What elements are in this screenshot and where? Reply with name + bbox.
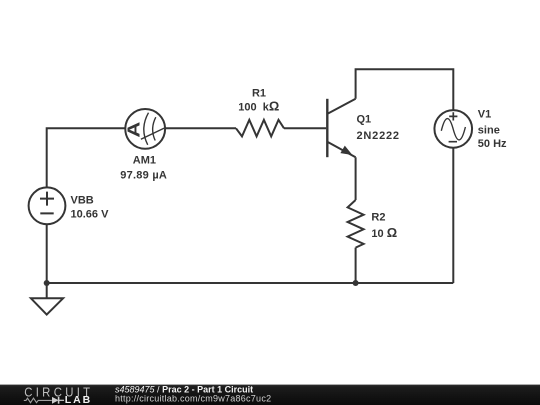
footer bar	[0, 385, 540, 405]
svg-text:VBB: VBB	[71, 195, 94, 207]
label R1 100 kOhm	[238, 87, 279, 113]
svg-text:A: A	[125, 122, 144, 138]
wire R2 bottom to ground rail	[355, 248, 357, 283]
svg-text:V1: V1	[478, 108, 491, 120]
ground	[31, 298, 63, 314]
svg-text:R2: R2	[371, 211, 385, 223]
svg-text:10.66 V: 10.66 V	[71, 209, 110, 221]
svg-text:Q1: Q1	[357, 114, 372, 126]
label AM1 97.89 uA	[120, 155, 167, 182]
label Q1 2N2222	[357, 114, 400, 142]
svg-text:http://circuitlab.com/cm9w7a86: http://circuitlab.com/cm9w7a86c7uc2	[115, 394, 271, 404]
wire AM1 to R1	[165, 127, 236, 129]
voltage source VBB	[29, 187, 66, 224]
svg-text:100 kΩ: 100 kΩ	[238, 99, 279, 114]
wire VBB bottom to rail	[46, 224, 48, 283]
wire rail to ground	[46, 283, 48, 298]
junction at VBB bottom rail	[44, 280, 50, 286]
svg-text:2N2222: 2N2222	[357, 130, 400, 142]
resistor R1	[236, 120, 284, 137]
transistor Q1	[327, 99, 355, 158]
svg-text:R1: R1	[252, 87, 266, 99]
ammeter AM1	[125, 109, 165, 149]
CircuitLab logo resistor squiggle and diode	[24, 397, 64, 404]
resistor R2	[348, 200, 364, 248]
svg-text:10 Ω: 10 Ω	[371, 225, 397, 240]
wire R1 to Q1 base	[284, 127, 326, 129]
label VBB 10.66 V	[71, 195, 110, 221]
svg-text:50 Hz: 50 Hz	[478, 138, 507, 150]
label V1 sine 50 Hz	[478, 108, 507, 150]
voltage source V1	[434, 110, 472, 148]
svg-text:97.89 µA: 97.89 µA	[120, 170, 167, 182]
wire VBB top to AM1 left	[47, 128, 126, 187]
svg-text:AM1: AM1	[133, 155, 156, 167]
junction at R2 bottom rail	[353, 280, 359, 286]
label R2 10 Ohm	[371, 211, 397, 240]
wire bottom rail	[47, 282, 454, 284]
wire Q1 collector to V1 top	[356, 69, 454, 110]
svg-text:sine: sine	[478, 124, 500, 136]
svg-text:LAB: LAB	[65, 394, 92, 405]
wire Q1 emitter to R2 top	[355, 157, 357, 200]
wire V1 bottom to rail	[452, 147, 454, 283]
